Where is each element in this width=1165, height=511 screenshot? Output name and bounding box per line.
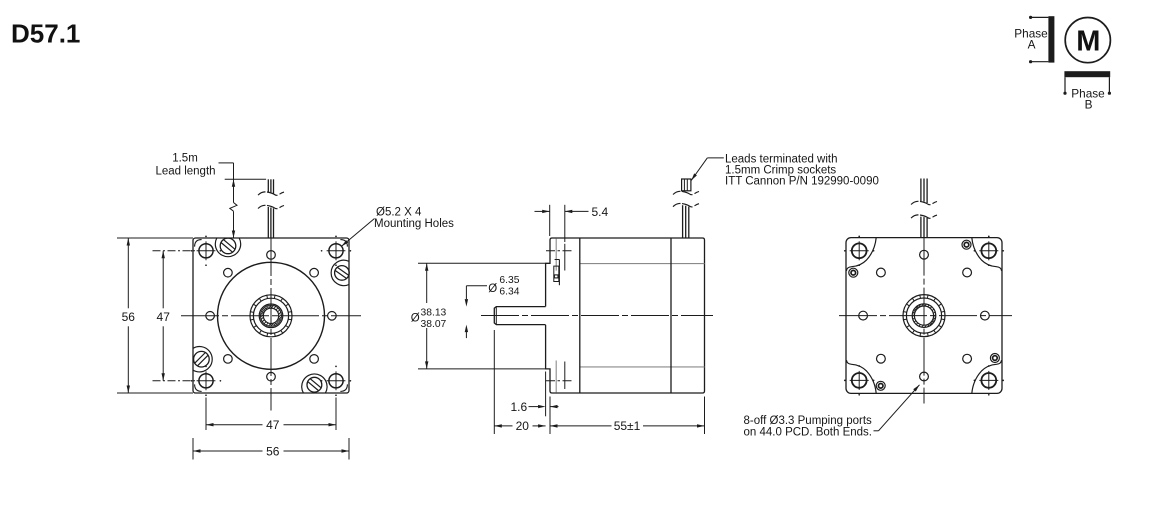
leader diameter 6.35 — [466, 285, 487, 287]
svg-text:5.4: 5.4 — [592, 205, 609, 219]
svg-text:Lead length: Lead length — [155, 165, 215, 177]
front lead break lower — [258, 205, 284, 208]
svg-text:55±1: 55±1 — [614, 419, 641, 433]
dimension 20 — [494, 424, 502, 427]
front screw top-right — [335, 266, 350, 281]
rear mounting hole top-right — [981, 243, 996, 258]
front view body outline — [193, 238, 349, 393]
leader mounting holes — [342, 219, 375, 247]
svg-text:47: 47 — [266, 418, 280, 432]
svg-text:6.35: 6.35 — [499, 275, 519, 286]
extension lines 47 bottom — [205, 398, 207, 431]
front horizontal centerline — [181, 315, 361, 317]
side bottom port centerline cross — [564, 362, 566, 390]
svg-text:6.34: 6.34 — [499, 286, 519, 297]
svg-text:B: B — [1085, 98, 1093, 112]
svg-text:Ø: Ø — [411, 313, 420, 325]
rear bolt hole upper-left — [849, 268, 858, 277]
dimension 5.4 — [535, 210, 550, 212]
side horizontal centerline — [481, 315, 713, 317]
motor circle — [1065, 17, 1110, 62]
rear bolt hole lower-left — [876, 381, 885, 390]
rear mounting hole top-left — [852, 243, 867, 258]
front screw bottom-left — [194, 351, 210, 367]
rear shaft hub — [903, 295, 945, 337]
rear view body outline — [846, 238, 1002, 394]
svg-text:38.07: 38.07 — [421, 319, 447, 330]
lead length dimension line — [232, 179, 235, 187]
rear horizontal centerline — [839, 315, 1012, 317]
leader pumping ports — [874, 430, 879, 432]
rear bolt hole lower-right — [990, 354, 999, 363]
front shaft hub — [250, 295, 292, 337]
svg-text:ITT Cannon P/N 192990-0090: ITT Cannon P/N 192990-0090 — [725, 176, 879, 188]
extension lines 47 left — [153, 250, 197, 252]
leader 1.5m — [219, 162, 234, 164]
extension lines 38.13 — [418, 262, 545, 264]
lead top extension line — [225, 178, 266, 180]
front corner fillet arcs — [195, 240, 348, 392]
rear scallop top-right — [972, 238, 1002, 271]
extension line 55 right — [704, 397, 706, 435]
rear lead wires upper — [920, 179, 922, 202]
side gray tangent bottom — [580, 366, 705, 368]
rear lead wires lower — [920, 217, 922, 238]
rear scallop top-left — [846, 238, 876, 271]
dimension 38.13 — [425, 263, 428, 271]
front screw bottom-right — [307, 377, 322, 392]
front mounting hole top-left — [199, 244, 213, 258]
extension lines 56 bottom — [192, 438, 194, 460]
svg-text:Ø: Ø — [488, 283, 497, 295]
rear mounting hole bottom-left — [852, 373, 867, 388]
extension line 20-55 mid — [549, 397, 551, 435]
svg-text:D57.1: D57.1 — [11, 19, 80, 49]
svg-text:Ø5.2 X 4: Ø5.2 X 4 — [376, 206, 422, 218]
front vertical centerline — [270, 238, 272, 411]
front pumping ports x8 — [328, 312, 337, 321]
svg-text:56: 56 — [122, 310, 136, 324]
side front endcap seam — [579, 238, 581, 393]
svg-text:A: A — [1028, 37, 1036, 51]
side port bore detail — [558, 260, 560, 286]
svg-text:38.13: 38.13 — [421, 307, 447, 318]
side lead break upper — [673, 191, 699, 194]
svg-text:1.5m: 1.5m — [172, 152, 198, 164]
leader leads — [707, 157, 724, 159]
extension line 1.6 — [545, 372, 547, 417]
side rear endcap seam — [670, 238, 672, 393]
side body outline — [546, 238, 705, 393]
svg-text:M: M — [1076, 26, 1100, 58]
front mounting hole bottom-right — [329, 374, 343, 388]
rear lead break upper — [911, 201, 937, 204]
side gray tangent top — [580, 263, 705, 265]
dimension 55 — [550, 424, 558, 427]
rear mounting hole bottom-right — [981, 373, 996, 388]
front lead break upper — [258, 192, 284, 195]
front mounting hole bottom-left — [199, 374, 213, 388]
extension line 20 left — [493, 330, 495, 434]
side gray tangent corner front — [555, 239, 557, 271]
svg-text:Mounting Holes: Mounting Holes — [374, 218, 454, 230]
dimension 47 left — [162, 251, 165, 258]
rear pumping ports x8 — [981, 311, 990, 320]
rear bolt hole upper-right — [962, 240, 971, 249]
extension lines 5.4 — [549, 205, 551, 236]
side shaft — [494, 307, 545, 325]
rear lead break lower — [911, 215, 937, 218]
front pilot boss circle — [218, 262, 325, 369]
side crimp socket — [682, 179, 691, 191]
dimension 56 left — [127, 238, 130, 246]
extension lines 56 left — [117, 237, 193, 239]
svg-text:1.6: 1.6 — [511, 400, 528, 414]
svg-text:56: 56 — [266, 444, 280, 458]
rear scallop bottom-right — [972, 360, 1002, 393]
svg-text:47: 47 — [157, 310, 171, 324]
side gray tangent corner front bottom — [555, 361, 557, 393]
side lead wires — [682, 205, 684, 238]
phase B winding bar — [1064, 71, 1110, 77]
rear vertical centerline — [923, 238, 925, 404]
front lead wires upper — [267, 179, 269, 192]
side lead break lower — [673, 203, 699, 206]
side top port centerline cross — [564, 244, 566, 271]
dimension 56 bottom — [193, 449, 201, 452]
phase A winding bar — [1048, 16, 1054, 62]
front lead wires lower — [267, 207, 269, 238]
front screw top-left — [220, 238, 236, 254]
svg-text:on 44.0 PCD. Both Ends.: on 44.0 PCD. Both Ends. — [744, 426, 873, 438]
dimension 47 bottom — [206, 423, 214, 426]
rear scallop bottom-left — [846, 360, 876, 393]
svg-text:20: 20 — [516, 419, 530, 433]
front mounting hole top-right — [329, 244, 343, 258]
